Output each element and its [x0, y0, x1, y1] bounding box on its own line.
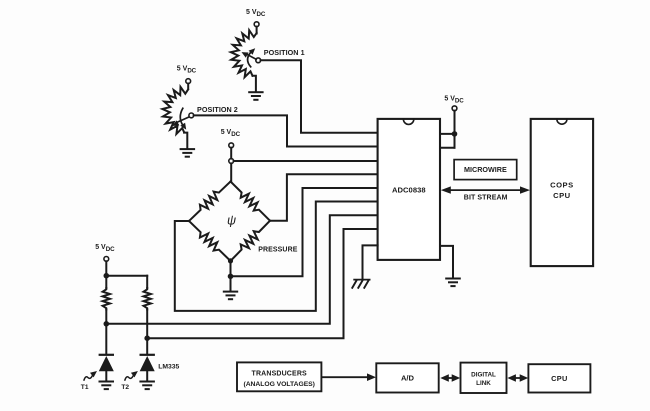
ground (T1)	[99, 382, 115, 390]
wiper terminal R2	[189, 113, 194, 118]
svg-text:MICROWIRE: MICROWIRE	[464, 165, 507, 174]
label POSITION 2	[197, 105, 238, 114]
wire R2 bottom to ground	[184, 133, 187, 149]
bridge resistor top-right arm	[231, 182, 271, 221]
adjust arrow T2	[125, 371, 138, 380]
svg-text:BIT STREAM: BIT STREAM	[464, 195, 508, 202]
wire T1 node to sensor T1	[105, 324, 107, 354]
svg-text:TRANSDUCERS: TRANSDUCERS	[252, 371, 307, 378]
wire T2 node to ADC pin CH6	[147, 229, 377, 338]
block TRANSDUCERS (analog voltages)	[237, 362, 321, 391]
op-amp ADC0838 body U1	[378, 119, 440, 260]
bridge resistor bottom-left arm	[189, 221, 231, 261]
sensor T1 LM335 diode	[99, 355, 114, 381]
label ADC0838	[392, 186, 426, 195]
value label 5V_DC (bridge supply)	[221, 129, 241, 138]
label LM335	[158, 363, 179, 370]
signal ground (ADC analog)	[352, 280, 371, 289]
svg-text:A/D: A/D	[401, 374, 415, 383]
value label 5V_DC (R2 supply)	[177, 65, 197, 74]
wire bridge bottom node to ADC pin CH2	[231, 188, 378, 276]
wire node to bridge top vertex	[230, 163, 232, 181]
block A/D	[376, 363, 438, 392]
block CPU	[528, 364, 590, 392]
svg-text:LINK: LINK	[476, 380, 491, 387]
wiper arrow R1	[242, 52, 257, 59]
svg-text:PRESSURE: PRESSURE	[258, 247, 298, 254]
value label 5V_DC (R1 supply)	[246, 9, 266, 18]
svg-text:COPS: COPS	[550, 181, 574, 190]
label BIT STREAM	[464, 195, 508, 202]
sensor T2 LM335 diode	[140, 355, 155, 381]
bridge resistor bottom-right arm	[231, 221, 271, 261]
svg-text:CPU: CPU	[551, 374, 568, 383]
wire bridge node to ground	[230, 276, 232, 291]
junction temp supply split	[104, 273, 110, 279]
wire R1 wiper to ADC pin CH0	[261, 60, 378, 133]
label T1	[81, 384, 89, 391]
label COPS CPU	[550, 181, 574, 201]
svg-text:T2: T2	[121, 384, 129, 391]
svg-text:POSITION 2: POSITION 2	[197, 105, 238, 114]
adjust arrow T1	[84, 371, 97, 380]
wire R4 branch top	[146, 276, 148, 288]
ground (pot R1)	[248, 92, 263, 100]
junction bridge bottom vertex	[228, 258, 233, 263]
potentiometer R1 element	[231, 30, 257, 77]
wire A/D to digital link (bidirectional arrow)	[440, 374, 460, 382]
svg-text:CPU: CPU	[553, 191, 571, 200]
junction T1 output node	[104, 321, 110, 327]
label PRESSURE	[258, 247, 298, 254]
power +5V supply terminal (ADC VCC)	[452, 106, 457, 111]
ground (T2)	[139, 382, 155, 390]
svg-text:DIGITAL: DIGITAL	[471, 371, 496, 378]
svg-text:POSITION 1: POSITION 1	[264, 48, 305, 57]
power +5V supply terminal (temp sensors)	[104, 257, 109, 276]
wire T1 node to ADC pin CH5	[106, 215, 377, 324]
wire T2 node to sensor T2	[146, 338, 148, 354]
ground (bridge)	[223, 292, 238, 300]
value label 5V_DC (temp supply)	[95, 244, 115, 253]
pressure transducer symbol psi	[227, 213, 236, 227]
wire R2 wiper to ADC pin CH1	[194, 115, 378, 146]
wiper terminal R1	[256, 58, 261, 63]
power +5V supply terminal (pot R2)	[186, 79, 191, 89]
resistor R4	[144, 288, 151, 310]
ADC notch	[403, 119, 413, 124]
wire bridge right vertex to ADC pin CH4	[270, 174, 378, 221]
wire R3 to T1 node	[105, 310, 107, 324]
rotation arrow R1	[248, 48, 256, 67]
resistor R3	[103, 288, 110, 310]
svg-text:ADC0838: ADC0838	[392, 186, 426, 195]
bridge resistor top-left arm	[189, 182, 231, 222]
svg-text:(ANALOG VOLTAGES): (ANALOG VOLTAGES)	[243, 381, 314, 388]
power +5V supply terminal (pot R1)	[254, 22, 259, 34]
wire supply split to R4 branch	[106, 275, 147, 277]
svg-text:LM335: LM335	[158, 363, 179, 370]
rotation arrow R2	[180, 108, 186, 129]
wire ADC AGND pin to signal ground	[363, 245, 378, 278]
ground (pot R2)	[180, 149, 196, 157]
wire R1 bottom to ground	[253, 76, 256, 92]
wire digital link to CPU (bidirectional arrow)	[507, 374, 528, 382]
wire R3 branch top	[105, 276, 107, 288]
label T2	[121, 384, 129, 391]
label box MICROWIRE	[454, 160, 517, 180]
wire ADC VCC net	[440, 111, 455, 148]
wire transducers to A/D (arrow)	[321, 373, 376, 381]
wire bridge bottom to ground node	[230, 261, 232, 276]
svg-text:ψ: ψ	[227, 213, 236, 227]
COPS notch	[557, 119, 567, 124]
wire bridge supply node to ADC pin VREF	[234, 160, 378, 162]
wire R4 to T2 node	[146, 310, 148, 339]
ground (ADC digital)	[445, 279, 461, 287]
node VREF terminal (open circle)	[229, 159, 234, 164]
wire BIT STREAM bus (bidirectional arrow)	[441, 186, 530, 193]
junction ADC VCC	[452, 131, 458, 137]
block DIGITAL LINK	[461, 363, 507, 393]
potentiometer R2 element	[162, 87, 188, 134]
power +5V supply terminal (bridge)	[229, 143, 234, 159]
processor COPS CPU body U2	[531, 119, 593, 266]
wire bridge left vertex to ADC pin CH3	[175, 202, 378, 311]
value label 5V_DC (ADC supply)	[444, 96, 464, 105]
label POSITION 1	[264, 48, 305, 57]
wire ADC DGND pin to ground	[440, 246, 453, 278]
junction T2 output node	[144, 335, 150, 341]
junction bridge ground node	[228, 274, 234, 280]
svg-text:T1: T1	[81, 384, 89, 391]
wiper arrow R2	[172, 117, 188, 126]
